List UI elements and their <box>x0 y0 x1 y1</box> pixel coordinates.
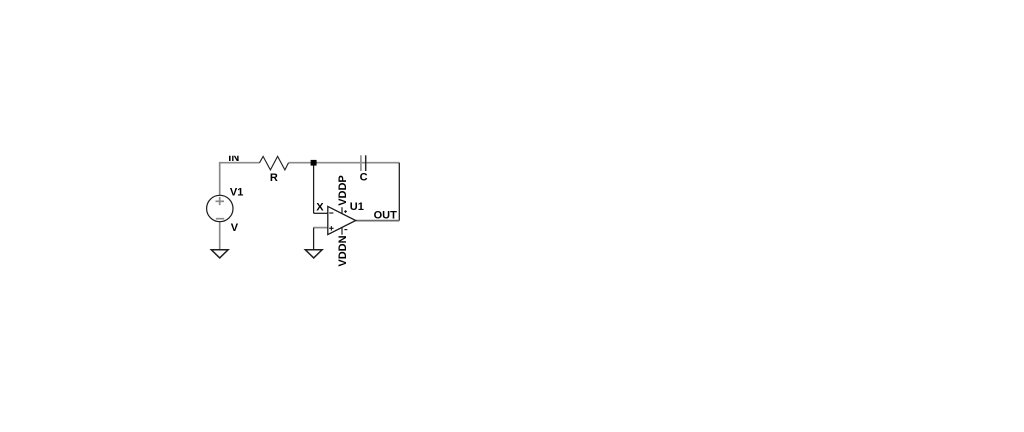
svg-text:U1: U1 <box>350 201 364 213</box>
svg-text:R: R <box>270 172 278 184</box>
svg-text:VDDP: VDDP <box>337 175 349 206</box>
svg-text:X: X <box>316 202 324 214</box>
svg-text:OUT: OUT <box>374 209 398 221</box>
svg-text:V1: V1 <box>230 187 243 199</box>
svg-text:C: C <box>360 172 368 184</box>
svg-text:V: V <box>231 222 239 234</box>
svg-text:VDDN: VDDN <box>337 235 349 266</box>
